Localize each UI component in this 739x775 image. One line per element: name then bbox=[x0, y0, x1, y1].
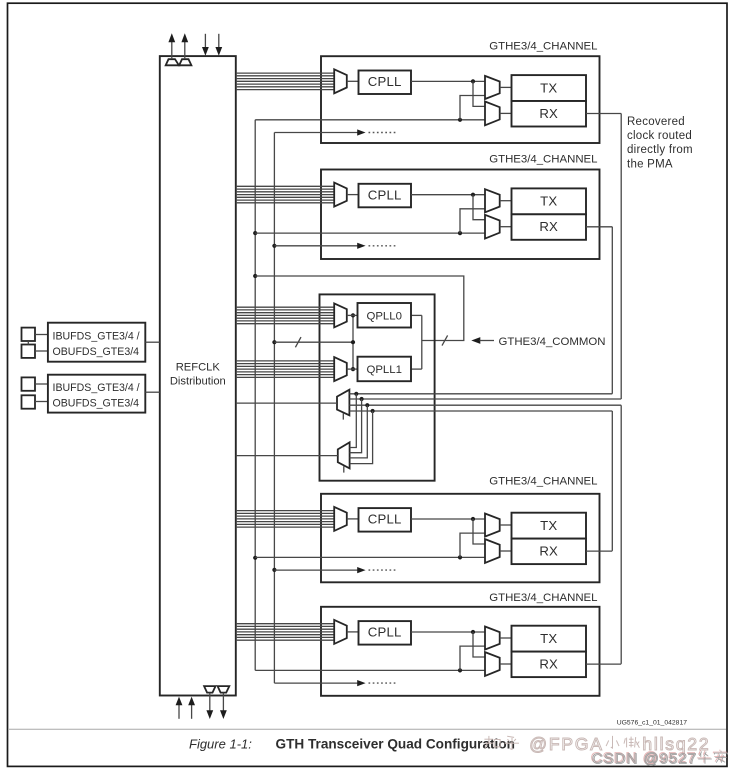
svg-text:QPLL0: QPLL0 bbox=[366, 310, 401, 322]
wire: mux to CPLL bbox=[347, 80, 359, 82]
wire: mux to CPLL bbox=[347, 518, 359, 520]
QPLL1 refclk bundle (7 wires) bbox=[236, 361, 334, 378]
IBUFDS pad square 3 bbox=[22, 377, 36, 390]
channel 3 CPLL refclk mux bbox=[334, 507, 347, 531]
channel 2 TX clock mux bbox=[485, 189, 500, 212]
svg-text:QPLL1: QPLL1 bbox=[366, 364, 401, 376]
junction+drop: collector 1 to mux D2 bbox=[350, 392, 359, 448]
wire: RX recovered clock out of channel 1 bbox=[586, 113, 621, 115]
wire: RX recovered clock out of channel 4 bbox=[586, 663, 621, 665]
wire: RX recovered clock out of channel 3 bbox=[586, 550, 612, 552]
wire: trunk B to QPLL mux outputs bbox=[274, 341, 353, 343]
wire: mux to CPLL bbox=[347, 194, 359, 196]
channel 1 reference clock bundle (7 wires) bbox=[236, 73, 334, 90]
wire: pad1 to buffer box 1 bbox=[35, 334, 48, 336]
recovered clock collector line 1 (to channel 2) bbox=[349, 393, 612, 395]
junction+drop: collector 4 to mux D2 bbox=[350, 409, 375, 464]
GTHE3/4_COMMON pointer arrow bbox=[471, 337, 494, 344]
channel 3 RX block bbox=[512, 539, 587, 565]
trunk A: QPLL clock distribution vertical bbox=[254, 120, 256, 671]
channel 1 CPLL refclk mux bbox=[334, 69, 347, 93]
wire: CPLL output to TX mux, branch to RX mux bbox=[411, 79, 485, 106]
wire: CPLL output to TX mux, branch to RX mux bbox=[411, 193, 485, 220]
channel 2 RX clock mux bbox=[485, 215, 500, 239]
junction: trunk B to channel 3 arrow bbox=[272, 568, 276, 572]
junction: join at QPLL1 mux output bbox=[351, 367, 355, 371]
channel 1 clock-out arrow with dotted continuation bbox=[274, 129, 396, 135]
vertical: channel 4 recovered clock bbox=[620, 405, 622, 664]
vertical: channel 1 recovered clock bbox=[620, 114, 622, 400]
svg-text:GTHE3/4_CHANNEL: GTHE3/4_CHANNEL bbox=[489, 475, 597, 487]
wire: RX mux to RX bbox=[500, 663, 512, 665]
southbound clock arrow 2 (bottom) bbox=[220, 693, 227, 719]
svg-text:CPLL: CPLL bbox=[368, 187, 402, 202]
north refclk buffer 2 bbox=[179, 59, 191, 65]
recovered clock collector line 3 (to channel 4) bbox=[349, 404, 621, 406]
svg-text:TX: TX bbox=[540, 80, 557, 95]
svg-text:GTHE3/4_CHANNEL: GTHE3/4_CHANNEL bbox=[489, 41, 597, 53]
svg-text:TX: TX bbox=[540, 631, 557, 646]
IBUFDS/OBUFDS buffer box 1 bbox=[48, 323, 145, 362]
wire: QPLL clock line into channel 4, branch to TX mux bbox=[255, 646, 485, 672]
wire: pad3 to buffer box 2 bbox=[35, 383, 48, 385]
svg-text:directly from: directly from bbox=[627, 144, 693, 156]
svg-text:RX: RX bbox=[539, 219, 558, 234]
channel 3 RX clock mux bbox=[485, 539, 500, 563]
junction: trunk B to QPLL refclk line bbox=[272, 340, 276, 344]
junction: join at QPLL0 mux output bbox=[351, 313, 355, 317]
wire: CPLL output to TX mux, branch to RX mux bbox=[411, 630, 485, 657]
trunk B: fabric clock vertical bbox=[273, 133, 275, 684]
svg-text:OBUFDS_GTE3/4: OBUFDS_GTE3/4 bbox=[53, 346, 140, 358]
wire: buffer box 1 output bbox=[145, 341, 160, 343]
wire: QPLL0 output bbox=[411, 314, 422, 316]
QPLL1 box bbox=[358, 357, 412, 382]
IBUFDS/OBUFDS buffer box 2 bbox=[48, 375, 145, 413]
northbound clock-in arrow 1 (bottom) bbox=[176, 697, 183, 719]
channel 4 RX clock mux bbox=[485, 652, 500, 676]
REFCLK Distribution block bbox=[160, 56, 236, 695]
channel 1 CPLL box bbox=[359, 71, 412, 95]
wire: mux to QPLL1 bbox=[347, 368, 358, 370]
wire: pad2 to buffer box 1 bbox=[35, 350, 48, 352]
north refclk buffer 1 bbox=[166, 59, 179, 65]
svg-text:GTH Transceiver Quad Configura: GTH Transceiver Quad Configuration bbox=[276, 737, 515, 752]
wire: buffer box 2 output bbox=[145, 391, 160, 393]
southbound clock arrow 1 (bottom) bbox=[206, 693, 213, 719]
wire: mux to QPLL0 bbox=[347, 314, 358, 316]
bus slash on feedback wire bbox=[442, 335, 448, 345]
svg-text:clock routed: clock routed bbox=[627, 130, 692, 142]
watermark: CSDN @9527华安 bbox=[591, 749, 727, 766]
recovered clock collector line 2 (to channel 1) bbox=[349, 398, 621, 400]
wire: pad4 to buffer box 2 bbox=[35, 401, 48, 403]
svg-text:TX: TX bbox=[540, 194, 557, 209]
wire: QPLL output feedback (up and over to trunk A) bbox=[255, 276, 464, 341]
channel 3 box bbox=[321, 494, 600, 583]
southbound clock-in arrow 2 (top) bbox=[215, 34, 222, 56]
channel 1 RX clock mux bbox=[485, 102, 500, 126]
svg-text:CPLL: CPLL bbox=[368, 512, 402, 527]
svg-text:GTHE3/4_COMMON: GTHE3/4_COMMON bbox=[499, 336, 606, 348]
junction: join at trunk B line bbox=[351, 340, 355, 344]
wire: QPLL0/QPLL1 output riser bbox=[421, 315, 423, 369]
IBUFDS pad square 1 bbox=[22, 328, 36, 341]
channel 1 box bbox=[321, 56, 600, 143]
channel 3 TX block bbox=[512, 513, 587, 539]
channel 3 TX clock mux bbox=[485, 514, 500, 537]
junction+drop: collector 2 to mux D2 bbox=[350, 397, 364, 453]
junction: trunk A to channel 2 bbox=[253, 231, 257, 235]
channel 2 box bbox=[321, 170, 600, 260]
southbound clock-in arrow 1 (top) bbox=[202, 34, 209, 56]
south refclk buffer 2 bbox=[218, 686, 230, 693]
svg-text:IBUFDS_GTE3/4 /: IBUFDS_GTE3/4 / bbox=[53, 382, 140, 394]
Recovered clock annotation bbox=[627, 116, 693, 171]
south mux D1 bbox=[337, 390, 349, 416]
northbound clock arrow 2 bbox=[181, 33, 188, 59]
svg-text:CSDN @9527: CSDN @9527 bbox=[592, 751, 697, 768]
channel 4 TX clock mux bbox=[485, 627, 500, 650]
wire: QPLL1 output bbox=[411, 368, 422, 370]
svg-text:CPLL: CPLL bbox=[368, 74, 402, 89]
svg-text:GTHE3/4_CHANNEL: GTHE3/4_CHANNEL bbox=[489, 592, 597, 604]
wire: TX mux to TX bbox=[500, 86, 512, 88]
svg-text:RX: RX bbox=[539, 106, 558, 121]
svg-text:Figure 1-1:: Figure 1-1: bbox=[189, 737, 252, 752]
svg-text:REFCLK: REFCLK bbox=[176, 362, 221, 374]
wire: TX mux to TX bbox=[500, 524, 512, 526]
svg-text:RX: RX bbox=[539, 656, 558, 671]
svg-text:CPLL: CPLL bbox=[368, 625, 402, 640]
channel 4 clock-out arrow with dotted continuation bbox=[274, 680, 396, 686]
channel 1 RX block bbox=[512, 101, 587, 127]
channel 4 RX block bbox=[512, 652, 587, 678]
channel 1 TX clock mux bbox=[485, 76, 500, 99]
south mux D2 bbox=[338, 442, 350, 468]
QPLL0 refclk bundle (7 wires) bbox=[236, 307, 334, 324]
wire: CPLL output to TX mux, branch to RX mux bbox=[411, 517, 485, 544]
svg-text:OBUFDS_GTE3/4: OBUFDS_GTE3/4 bbox=[53, 397, 140, 409]
channel 4 CPLL refclk mux bbox=[334, 620, 347, 644]
svg-text:the PMA: the PMA bbox=[627, 158, 673, 170]
south refclk buffer 1 bbox=[204, 686, 215, 693]
wire: TX mux to TX bbox=[500, 200, 512, 202]
svg-text:GTHE3/4_CHANNEL: GTHE3/4_CHANNEL bbox=[489, 153, 597, 165]
south mux D2 select stub bbox=[343, 466, 345, 472]
wire: pad pair connector bbox=[27, 341, 29, 345]
wire: mux D2 output to REFCLK distribution bbox=[236, 455, 338, 457]
QPLL0 box bbox=[358, 303, 412, 328]
GTHE3/4_COMMON box bbox=[320, 294, 435, 480]
wire: RX mux to RX bbox=[500, 112, 512, 114]
svg-text:TX: TX bbox=[540, 518, 557, 533]
IBUFDS pad square 4 bbox=[22, 395, 36, 408]
channel 4 TX block bbox=[512, 626, 587, 652]
channel 2 reference clock bundle (7 wires) bbox=[236, 186, 334, 203]
channel 2 CPLL refclk mux bbox=[334, 183, 347, 207]
wire: TX mux to TX bbox=[500, 637, 512, 639]
svg-text:Recovered: Recovered bbox=[627, 116, 685, 128]
bus slash on trunk B QPLL line bbox=[295, 337, 301, 347]
svg-text:Distribution: Distribution bbox=[170, 376, 226, 388]
wire: QPLL mux output join vertical bbox=[352, 315, 354, 369]
wire: QPLL clock line into channel 2, branch to TX mux bbox=[255, 209, 485, 235]
junction: trunk B to channel 2 arrow bbox=[272, 244, 276, 248]
channel 3 clock-out arrow with dotted continuation bbox=[274, 567, 396, 573]
recovered clock collector line 4 (to channel 3) bbox=[349, 410, 612, 412]
channel 1 TX block bbox=[512, 75, 587, 101]
channel 4 CPLL box bbox=[359, 621, 412, 645]
channel 4 reference clock bundle (7 wires) bbox=[236, 624, 334, 641]
northbound clock-in arrow 2 (bottom) bbox=[188, 697, 195, 719]
svg-text:UG576_c1_01_042817: UG576_c1_01_042817 bbox=[617, 720, 688, 727]
figure caption bbox=[189, 737, 515, 752]
channel 2 clock-out arrow with dotted continuation bbox=[274, 243, 396, 249]
wire: RX recovered clock out of channel 2 bbox=[586, 226, 612, 228]
vertical: channel 2 recovered clock bbox=[611, 227, 613, 394]
wire: mux D1 output to REFCLK distribution bbox=[236, 402, 337, 404]
channel 3 CPLL box bbox=[359, 508, 412, 531]
wire: RX mux to RX bbox=[500, 550, 512, 552]
channel 2 TX block bbox=[512, 188, 587, 214]
south mux D1 select stub bbox=[342, 413, 344, 419]
junction+drop: collector 3 to mux D2 bbox=[350, 403, 370, 458]
vertical: channel 3 recovered clock bbox=[611, 411, 613, 551]
wire: QPLL clock line into channel 3, branch to TX mux bbox=[255, 533, 485, 559]
watermark: 知乎 @FPGA小微hllsq22 bbox=[484, 734, 710, 754]
svg-text:IBUFDS_GTE3/4 /: IBUFDS_GTE3/4 / bbox=[53, 331, 140, 343]
IBUFDS pad square 2 bbox=[22, 345, 36, 358]
northbound clock arrow 1 bbox=[168, 33, 175, 59]
caption rule bbox=[9, 728, 726, 730]
wire: QPLL clock line into channel 1, branch to TX mux bbox=[255, 96, 485, 122]
wire: RX mux to RX bbox=[500, 226, 512, 228]
wire: mux to CPLL bbox=[347, 631, 359, 633]
junction: trunk A to channel 3 bbox=[253, 556, 257, 560]
channel 2 RX block bbox=[512, 214, 587, 240]
QPLL0 refclk mux bbox=[334, 303, 347, 327]
svg-text:RX: RX bbox=[539, 543, 558, 558]
junction: trunk A to QPLL feedback bbox=[253, 274, 257, 278]
QPLL1 refclk mux bbox=[334, 357, 347, 381]
channel 4 box bbox=[321, 607, 600, 696]
channel 2 CPLL box bbox=[359, 184, 412, 208]
channel 3 reference clock bundle (7 wires) bbox=[236, 511, 334, 527]
